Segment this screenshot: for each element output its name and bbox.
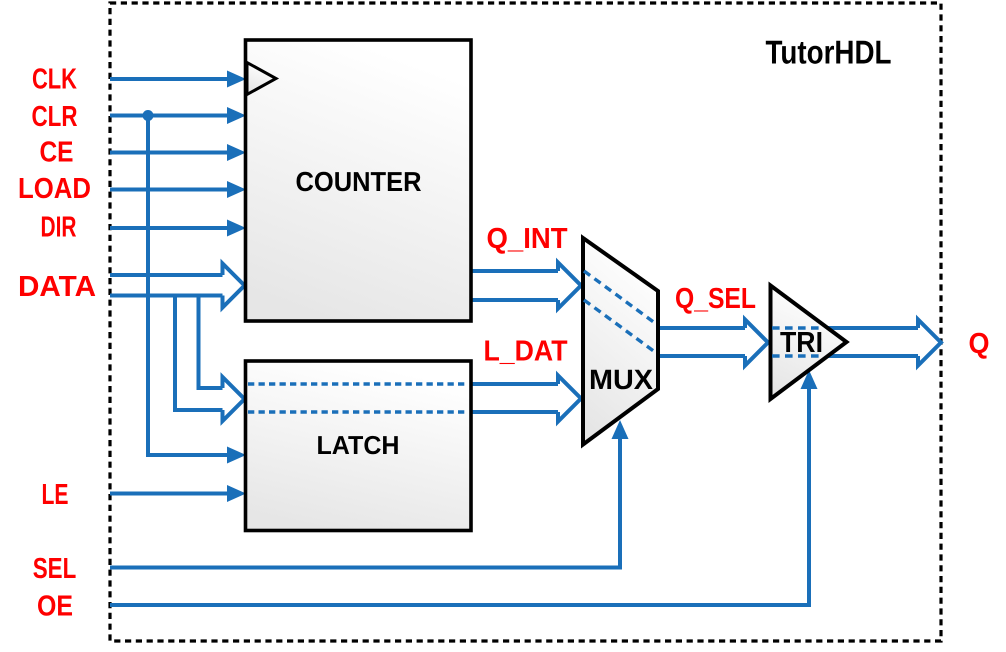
dashed bus path inside MUX lower <box>584 300 657 354</box>
svg-text:Q: Q <box>969 328 990 360</box>
svg-text:Q_SEL: Q_SEL <box>675 283 756 315</box>
svg-text:L_DAT: L_DAT <box>484 336 568 368</box>
dashed bus path inside TRI lower <box>772 354 823 357</box>
clock edge triangle on COUNTER <box>247 63 276 95</box>
junction on CLR <box>143 110 154 121</box>
dashed bus path inside TRI upper <box>772 326 824 329</box>
tri-state buffer TRI <box>771 286 847 400</box>
dashed bus path inside LATCH upper <box>248 382 468 385</box>
svg-text:CLK: CLK <box>32 64 77 96</box>
wire CE <box>110 144 246 161</box>
wire SEL to MUX select <box>110 420 629 568</box>
bus Q_SEL from MUX to TRI <box>660 320 768 366</box>
dashed bus path inside LATCH lower <box>248 410 468 413</box>
svg-text:COUNTER: COUNTER <box>296 166 422 197</box>
svg-text:SEL: SEL <box>33 553 77 585</box>
svg-text:CE: CE <box>40 137 74 169</box>
dashed bus path inside MUX upper <box>584 271 657 325</box>
wire CLR <box>110 107 246 124</box>
wire CLR branch down to LATCH <box>148 116 246 464</box>
wire LOAD <box>110 181 246 198</box>
bus Q output from TRI to boundary <box>824 320 941 366</box>
bus Q_INT from COUNTER to MUX <box>469 263 581 309</box>
svg-text:OE: OE <box>37 591 73 623</box>
wire OE to TRI enable <box>110 370 818 605</box>
svg-text:TutorHDL: TutorHDL <box>766 34 892 71</box>
block COUNTER <box>246 40 472 321</box>
svg-text:DATA: DATA <box>18 271 96 303</box>
svg-text:LE: LE <box>42 479 69 511</box>
block LATCH <box>246 361 472 531</box>
svg-text:LOAD: LOAD <box>18 173 91 205</box>
wire CLK <box>110 71 246 88</box>
bus L_DAT from LATCH to MUX <box>469 376 581 422</box>
wire LE <box>110 485 246 502</box>
svg-text:Q_INT: Q_INT <box>487 223 568 255</box>
bus DATA into COUNTER <box>110 264 245 308</box>
svg-text:TRI: TRI <box>780 327 823 359</box>
wire DIR <box>110 220 246 237</box>
mux MUX <box>583 238 658 445</box>
svg-text:DIR: DIR <box>41 211 77 243</box>
bus DATA branch into LATCH <box>175 296 245 422</box>
svg-text:CLR: CLR <box>32 101 78 133</box>
svg-text:LATCH: LATCH <box>317 430 400 460</box>
svg-text:MUX: MUX <box>589 364 653 395</box>
